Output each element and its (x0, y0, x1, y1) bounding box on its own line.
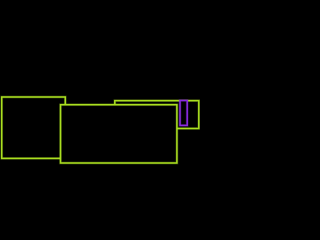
big rectangle (yellow outline, top layer) (61, 105, 177, 163)
top-right rectangle (yellow outline, bottom layer) (115, 101, 199, 129)
purple rectangle (180, 101, 187, 126)
left square (yellow outline) (2, 97, 66, 158)
